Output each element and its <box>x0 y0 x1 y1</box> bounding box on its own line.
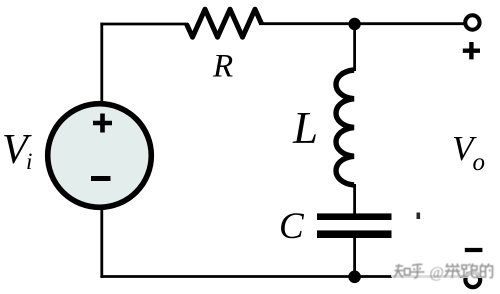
resistor R <box>187 9 262 37</box>
svg-text:@: @ <box>430 265 444 282</box>
svg-text:o: o <box>473 149 486 176</box>
svg-text:L: L <box>292 103 318 153</box>
voltage source Vi <box>48 104 152 208</box>
wire middle vertical lower <box>353 238 356 277</box>
watermark glyph ben <box>445 264 461 279</box>
svg-text:C: C <box>279 206 305 247</box>
watermark halo band <box>391 262 461 279</box>
capacitor C top plate <box>317 213 392 220</box>
terminal top-right open circle <box>465 15 479 29</box>
watermark glyph zhi <box>394 264 410 278</box>
watermark glyph pao <box>462 264 478 278</box>
wire left vertical lower <box>100 207 103 278</box>
watermark glyph de <box>481 264 493 278</box>
minus sign source <box>91 176 111 181</box>
svg-text:i: i <box>26 149 32 174</box>
wire bottom horizontal <box>100 275 465 278</box>
terminal bottom-right open circle <box>465 272 480 287</box>
wire left vertical upper <box>100 23 103 104</box>
capacitor C bottom plate <box>317 230 392 238</box>
stray mark <box>417 213 421 220</box>
minus sign output <box>465 248 483 252</box>
watermark glyph hu <box>411 264 425 278</box>
plus sign output <box>463 42 480 59</box>
wire top-left horizontal <box>100 23 188 26</box>
svg-text:R: R <box>212 49 233 85</box>
wire middle vertical upper <box>353 24 356 71</box>
node bottom junction dot <box>348 271 361 284</box>
wire middle vertical between L and C <box>353 184 356 214</box>
inductor L <box>336 70 354 185</box>
plus sign source <box>93 114 112 133</box>
node top junction dot <box>348 18 360 30</box>
watermark halo right <box>460 263 477 279</box>
wire top-right horizontal <box>259 22 466 25</box>
